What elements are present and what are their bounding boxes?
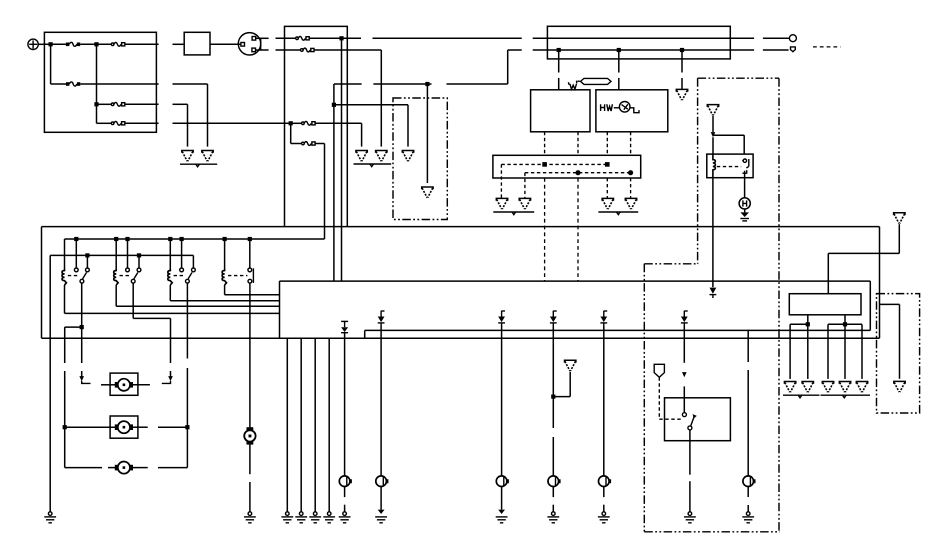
wire down to triangle A3 xyxy=(407,105,409,147)
lamp L6 xyxy=(743,476,755,487)
pin dot P4 xyxy=(628,170,633,175)
dashed sense line S1 xyxy=(544,178,546,281)
node bus2 xyxy=(85,253,89,257)
node J1 xyxy=(49,42,53,46)
wire A9 riser xyxy=(569,372,571,397)
relay K3 arm xyxy=(83,273,87,279)
lamp L4 xyxy=(548,476,560,487)
power rail box xyxy=(547,26,730,59)
wire L2 to ground xyxy=(380,487,382,510)
fuse F1d xyxy=(111,102,125,106)
wire D2 down xyxy=(380,326,382,476)
motor M5 xyxy=(115,462,133,474)
wire to relay K2 contact xyxy=(743,135,745,154)
node bus1 xyxy=(248,237,252,241)
wire vertical 341 xyxy=(341,38,343,281)
wire bus2 to ground xyxy=(49,255,51,511)
wire down to ground G4 xyxy=(380,50,382,147)
node bus1 xyxy=(168,237,172,241)
wire M6 down xyxy=(249,444,251,474)
wire J2 down xyxy=(96,44,98,123)
wire K5 coil to M1 xyxy=(170,300,279,302)
ground S2 xyxy=(684,512,696,523)
relay bus1 xyxy=(65,238,325,240)
wire into fuse F2d xyxy=(291,143,302,145)
wire L4 to ground xyxy=(552,487,554,498)
wire J6 drop2 xyxy=(558,78,560,90)
dashed drop to ground B1 xyxy=(500,164,502,198)
connector pin E1 xyxy=(654,364,664,377)
relay K3 contact B wire xyxy=(86,255,88,268)
wire down to motor1 xyxy=(170,318,172,363)
wire D5 down xyxy=(603,326,605,476)
wire row4 feed xyxy=(97,122,112,124)
relay K3 coil out xyxy=(64,285,66,313)
ground B4 triangle xyxy=(625,198,636,209)
load triangle C4 xyxy=(839,382,850,393)
node JF xyxy=(551,395,555,399)
switch S2 arm xyxy=(691,417,694,426)
dash-dot box A xyxy=(393,98,447,220)
wire y84 right xyxy=(447,83,508,85)
wire A7 down xyxy=(898,224,900,253)
ignition switch S1 body xyxy=(238,33,260,55)
relay K4 coil out xyxy=(115,285,117,306)
wire row4 into fuse F2c xyxy=(291,122,302,124)
wire M2 output 1 xyxy=(789,324,791,379)
load triangle C2 xyxy=(802,382,813,393)
ground G2 triangle xyxy=(202,151,213,162)
load triangle C1 xyxy=(784,382,795,393)
ground GD3 xyxy=(309,512,321,523)
relay K3 coil feed xyxy=(64,239,66,269)
battery B+ terminal xyxy=(28,39,38,49)
wire into switch box xyxy=(683,386,685,412)
wire ground drop 1 xyxy=(286,338,288,511)
fuse F1a xyxy=(66,42,80,46)
relay K3 contact A wire xyxy=(75,239,77,268)
wire motor3 right b xyxy=(158,467,187,469)
node J10 xyxy=(332,103,336,107)
node J2 xyxy=(94,42,98,46)
relay K3 contact A xyxy=(74,268,78,272)
left enclosure edge xyxy=(41,227,43,339)
dashed U2 pin2 xyxy=(630,132,632,156)
dashed U2 pin1 xyxy=(606,132,608,156)
wire row2 link xyxy=(173,83,208,85)
diode D2 xyxy=(378,311,385,326)
wire D3 down xyxy=(501,326,503,476)
wire J6 drop xyxy=(558,50,560,73)
fuse F1c xyxy=(66,82,80,86)
relay K5 contact B xyxy=(192,268,196,272)
relay K2 contact xyxy=(742,159,749,173)
wire lamp feed2 xyxy=(747,370,749,476)
ground L3 shielded xyxy=(496,510,508,523)
relay K6 coil out xyxy=(224,285,226,295)
pin dot P3 xyxy=(575,170,580,175)
wire row3 feed xyxy=(97,103,112,105)
relay K5 pivot wire xyxy=(186,283,188,358)
fuse F1e xyxy=(111,121,125,125)
ground tick xyxy=(617,212,621,215)
relay K4 arm xyxy=(134,273,138,279)
wire J1 down xyxy=(50,44,52,84)
relay K6 coil feed xyxy=(224,239,226,269)
wire motor3 left a xyxy=(65,467,102,469)
wire K2 coil out xyxy=(712,178,714,288)
wire D1 down xyxy=(344,333,346,476)
wire K3 coil to M1 xyxy=(65,312,280,314)
motor M4 xyxy=(115,421,133,433)
feed triangle A3 xyxy=(402,151,413,162)
fuse F1b xyxy=(111,42,125,46)
wire L3 to ground xyxy=(501,487,503,510)
wire down to ground G3 xyxy=(361,123,363,146)
wire L6 down2 xyxy=(747,505,749,512)
wire branch to A9 xyxy=(553,396,570,398)
fuse F2a xyxy=(296,36,310,40)
node bus1 xyxy=(223,237,227,241)
dash-dot box right edge xyxy=(778,78,780,532)
node bus2 xyxy=(137,253,141,257)
horn H1 xyxy=(739,198,750,209)
wire y84 left xyxy=(334,83,362,85)
wire riser 50-84 xyxy=(507,50,509,84)
arrow to motor1 right xyxy=(168,376,173,381)
ground G4 triangle xyxy=(376,151,387,162)
wire dash2 xyxy=(162,381,171,384)
dashed drop to ground B3 xyxy=(606,178,608,198)
ground GH xyxy=(740,212,749,221)
lamp L5 xyxy=(599,476,611,487)
M2 out segB xyxy=(828,323,862,325)
relay K6 contact bar xyxy=(252,268,254,283)
dashed link E1 right xyxy=(659,418,681,420)
node J3 xyxy=(94,102,98,106)
ground G3 triangle xyxy=(356,151,367,162)
node J7 xyxy=(617,48,621,52)
ground L6 xyxy=(742,512,754,523)
wire F1a to F1b xyxy=(80,43,111,45)
wire battery to fuse box xyxy=(38,43,44,45)
wire row4 out xyxy=(125,122,159,124)
fuse box F2 enclosure xyxy=(285,26,348,226)
wire L6 down xyxy=(747,487,749,498)
node bus1 xyxy=(74,237,78,241)
wire X bus run xyxy=(533,49,754,51)
main control box M1 right xyxy=(869,281,871,330)
relay K4 contact A xyxy=(126,268,130,272)
wire bus15 end xyxy=(763,37,789,39)
pin square P2 xyxy=(605,162,610,167)
M2 stub1 xyxy=(807,315,809,325)
diode D3 xyxy=(498,311,505,326)
wire bus15 run2 xyxy=(533,37,754,39)
main control box M1 top xyxy=(280,280,871,282)
motor M3 xyxy=(115,379,133,391)
ground B3 triangle xyxy=(602,198,613,209)
ground tick xyxy=(798,395,802,398)
wire D4 down3 xyxy=(552,437,554,476)
dashed sense line S2 xyxy=(577,178,579,281)
lamp L1 xyxy=(339,476,351,487)
relay K3 pivot wire xyxy=(81,283,83,363)
diode D6 xyxy=(710,288,717,298)
relay K4 coil feed xyxy=(115,239,117,269)
ground L1 xyxy=(339,512,351,523)
relay K5 pivot xyxy=(186,279,190,283)
relay K2 link dashed xyxy=(717,166,741,168)
relay K6 out wire xyxy=(249,283,251,427)
wire y84 mid xyxy=(373,83,431,85)
relay K5 arm xyxy=(188,273,192,279)
wire bus15 run xyxy=(373,37,522,39)
node J9 xyxy=(425,82,429,86)
control unit U1 box xyxy=(531,90,590,132)
wire A7 left xyxy=(828,252,899,254)
ground GD4 xyxy=(323,512,335,523)
dashed continuation xyxy=(813,46,841,48)
wire J7 drop xyxy=(618,50,620,73)
relay K5 contact B wire xyxy=(192,255,194,268)
fuse box F1 enclosure xyxy=(44,32,156,132)
feed triangle A4 xyxy=(422,187,433,198)
feed triangle A6 xyxy=(707,105,718,116)
load triangle A8 xyxy=(894,381,905,392)
node bus1 xyxy=(114,237,118,241)
wire S2 to ground xyxy=(689,430,691,475)
ground B1-B2 bar xyxy=(493,211,534,213)
ground tick xyxy=(843,395,847,398)
wire K4 coil to M1 xyxy=(116,305,279,307)
wire motor2 right b xyxy=(158,426,187,428)
feed triangle A5 xyxy=(676,89,687,100)
bottom rail y338 xyxy=(42,337,880,339)
ground GD2 xyxy=(295,512,307,523)
wire ground drop 4 xyxy=(328,338,330,511)
wire H1 to ground xyxy=(744,209,746,212)
arrow connector xyxy=(682,372,687,377)
motor M3 box xyxy=(110,373,138,395)
dash-dot box B top xyxy=(698,77,779,79)
node bus1 xyxy=(180,237,184,241)
relay K4 pivot xyxy=(131,279,135,283)
wire A6 down xyxy=(712,116,714,132)
wire row1 out xyxy=(125,43,159,45)
wire motor1 right xyxy=(133,384,150,386)
wire S1 out bottom xyxy=(256,49,269,51)
node J8 xyxy=(680,48,684,52)
relay K4 coil xyxy=(114,269,118,285)
wire to relay K2 coil xyxy=(712,137,714,154)
node JB xyxy=(843,322,847,326)
dash-dot box D (right) xyxy=(877,294,920,413)
wire L1 to ground xyxy=(344,487,346,498)
wire lamp feed xyxy=(747,330,749,362)
switch S2 contact xyxy=(682,413,686,417)
load triangle A9 xyxy=(565,360,576,371)
terminal T2 xyxy=(790,47,795,52)
wire D7 down xyxy=(683,326,685,363)
wire D4 down2 xyxy=(552,397,554,428)
M2 stub2 xyxy=(844,315,846,325)
inner bar top xyxy=(365,329,871,331)
ground bar C1-C2 xyxy=(783,394,819,396)
fuse F2d xyxy=(302,142,316,146)
diode D7 xyxy=(681,311,688,326)
wire right riser xyxy=(879,227,881,339)
wire K6 coil to M1 xyxy=(225,294,280,296)
relay K6 contact wire xyxy=(249,239,251,268)
load triangle C3 xyxy=(822,382,833,393)
switch S2 pivot xyxy=(688,426,692,430)
wire X bus end xyxy=(763,49,789,51)
wire M2 output 2 xyxy=(807,324,809,379)
relay K4 contact A wire xyxy=(127,239,129,268)
diode D5 xyxy=(600,311,607,326)
ground bar C3-C5 xyxy=(821,394,871,396)
wire motor1 left xyxy=(101,384,116,386)
U2 internal pump symbol xyxy=(601,102,639,113)
wire row2 feed xyxy=(51,83,66,85)
node J5 xyxy=(339,36,343,40)
wire branch to A8 xyxy=(880,303,900,305)
junction arrow xyxy=(711,132,716,137)
wire S1 out top xyxy=(256,37,269,39)
ground L2 shielded xyxy=(375,510,387,523)
node JC xyxy=(80,325,84,329)
wire motor3 right a xyxy=(133,467,148,469)
relay K5 contact A xyxy=(180,268,184,272)
switch S2 arm arrow xyxy=(693,414,697,418)
ground B3-B4 bar xyxy=(598,211,638,213)
label pill W xyxy=(568,78,611,89)
wire dash1 xyxy=(82,381,91,384)
relay bus2 xyxy=(50,254,193,256)
ground left xyxy=(44,512,56,523)
relay K5 coil feed xyxy=(169,239,171,269)
wire A7 drop to module xyxy=(827,253,829,293)
wire vertical 334 xyxy=(333,84,335,281)
wire branch right xyxy=(714,134,745,136)
wire down to relay bus1 xyxy=(324,144,326,240)
node J6 xyxy=(557,48,561,52)
connector strip X1 box xyxy=(493,155,641,178)
relay K3 pivot xyxy=(80,279,84,283)
ground B1 triangle xyxy=(496,198,507,209)
ground B2 triangle xyxy=(519,198,530,209)
relay K6 coil xyxy=(222,269,226,285)
wire M2 output 4 xyxy=(844,324,846,379)
M2 out segA xyxy=(790,323,808,325)
wire A8 drop xyxy=(899,304,901,378)
dashed net squares xyxy=(501,163,607,165)
node J4 xyxy=(289,121,293,125)
node JA xyxy=(806,322,810,326)
wire to ground G2 xyxy=(207,84,209,147)
load triangle C5 xyxy=(856,382,867,393)
wire row1 link xyxy=(173,43,185,45)
ground tick xyxy=(512,212,516,215)
component K1 box xyxy=(184,32,210,55)
ground G1-G2 bus bar xyxy=(180,163,217,165)
ground G1 triangle xyxy=(182,151,193,162)
wire F2d to relay bus xyxy=(315,143,324,145)
relay K3 coil xyxy=(62,269,66,285)
wire motor2 right a xyxy=(133,426,148,428)
dashed net dots xyxy=(525,172,631,174)
lamp L3 xyxy=(496,476,508,487)
dashed drop to ground B2 xyxy=(524,173,526,198)
dashed link E1 down xyxy=(658,377,660,419)
antenna triangle A7 xyxy=(894,213,905,224)
diode D1 xyxy=(341,321,348,332)
ground M6 xyxy=(244,512,256,523)
dashed U1 pin2 xyxy=(577,132,579,156)
dash-dot box E bottom xyxy=(644,531,780,533)
fuse F2b xyxy=(301,48,315,52)
relay K3 link xyxy=(68,275,80,277)
relay K6 contact top xyxy=(248,268,252,272)
switch S2 box xyxy=(665,398,731,441)
wire K2 contact out xyxy=(744,171,746,198)
wire J4 down to fuse F2d xyxy=(290,123,292,143)
wire M6 down2 xyxy=(249,482,251,512)
motor M6 fan xyxy=(244,427,255,444)
wire motor2 left xyxy=(65,426,116,428)
relay K5 coil out xyxy=(169,285,171,301)
fuse F2c xyxy=(302,121,316,125)
relay K5 contact A wire xyxy=(181,239,183,268)
inner bar left xyxy=(364,330,366,338)
wire row3 link xyxy=(173,103,188,105)
branch wire left xyxy=(65,326,82,328)
relay K6 contact bottom xyxy=(248,279,252,283)
relay K4 contact B xyxy=(137,268,141,272)
relay K5 coil xyxy=(168,269,172,285)
ground GD1 xyxy=(281,512,293,523)
ground L5 xyxy=(598,512,610,523)
wire ground drop 3 xyxy=(314,338,316,511)
wire J8 drop2 xyxy=(681,78,683,89)
branch wire down xyxy=(64,327,66,363)
relay K5 link xyxy=(174,275,186,277)
relay K2 box xyxy=(707,154,753,178)
dashed drop to ground B4 xyxy=(630,178,632,198)
ground G3-G4 bus bar xyxy=(354,163,392,165)
wire D4 down xyxy=(552,326,554,397)
dash-dot box B left xyxy=(697,78,699,264)
inner module M2 box xyxy=(789,294,861,315)
arrow to motor1 xyxy=(79,376,84,381)
wire F2a out xyxy=(309,37,361,39)
wire K1 to ignition switch xyxy=(210,43,241,45)
node JD xyxy=(63,425,67,429)
relay K2 coil xyxy=(713,154,715,178)
wire J9 down xyxy=(426,84,428,183)
wire M2 output 3 xyxy=(827,324,829,379)
wire row1 feed xyxy=(44,43,66,45)
wire link2 to fuse F2b xyxy=(276,49,301,51)
wire row3 out xyxy=(125,103,159,105)
pin square P1 xyxy=(542,162,547,167)
control unit U2 box xyxy=(596,90,668,132)
ground tick xyxy=(370,164,374,167)
main bus wire y226 xyxy=(42,226,880,228)
main control box M1 left xyxy=(279,281,281,338)
lamp L2 xyxy=(376,476,388,487)
